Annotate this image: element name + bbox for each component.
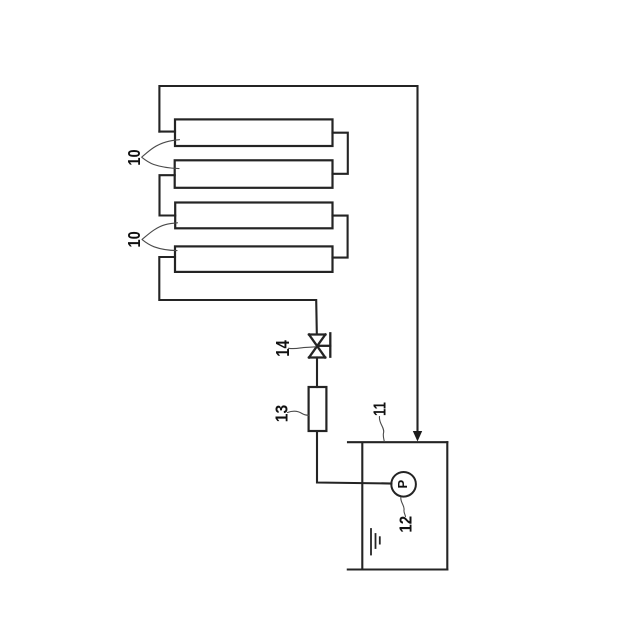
- svg-text:14: 14: [272, 339, 293, 356]
- svg-text:10: 10: [124, 149, 144, 165]
- svg-text:P: P: [395, 480, 410, 489]
- svg-text:12: 12: [395, 516, 416, 533]
- svg-text:11: 11: [371, 402, 390, 416]
- svg-text:10: 10: [124, 231, 144, 247]
- svg-text:13: 13: [271, 405, 291, 422]
